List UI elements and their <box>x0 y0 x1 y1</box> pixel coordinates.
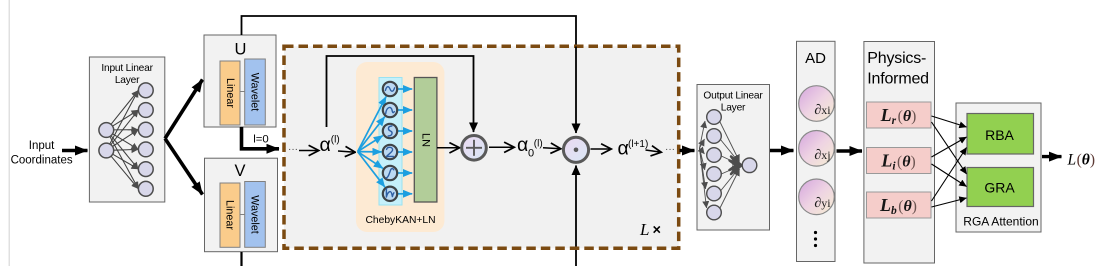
svg-text:Input Linear: Input Linear <box>101 63 153 74</box>
block V Wavelet <box>245 182 266 248</box>
wire LN to plus <box>437 147 460 149</box>
box dashed recurrent block <box>284 46 679 248</box>
wire V internal link <box>240 214 245 216</box>
icon cheb waves <box>385 87 394 197</box>
wire output converge edges <box>720 121 740 209</box>
label alpha0(l) <box>517 134 543 159</box>
svg-text:(l): (l) <box>331 135 340 146</box>
svg-text:Wavelet: Wavelet <box>249 73 261 112</box>
wire alpha l+1 out <box>646 150 662 152</box>
wire alpha0 to dot <box>543 148 561 149</box>
svg-text:Linear: Linear <box>224 78 236 108</box>
label L times <box>639 220 661 239</box>
svg-text:α: α <box>517 134 528 156</box>
svg-text:Coordinates: Coordinates <box>11 154 73 166</box>
svg-text:Physics-: Physics- <box>867 50 926 67</box>
node cheb basis circles <box>383 82 397 201</box>
svg-text:Li(θ): Li(θ) <box>880 151 915 173</box>
wire exit arrow to output layer <box>680 149 695 152</box>
block LN <box>414 78 437 203</box>
box RGA Attention <box>956 103 1041 232</box>
wire Lr to GRA <box>932 122 967 174</box>
svg-text:Lb(θ): Lb(θ) <box>879 195 917 217</box>
svg-text:LN: LN <box>420 133 432 147</box>
svg-text:RBA: RBA <box>985 127 1014 143</box>
svg-text:(l): (l) <box>534 139 543 150</box>
node AD circle dxi <box>799 86 835 122</box>
wire U top to dot-product <box>242 16 577 47</box>
wire fan to V <box>165 139 203 195</box>
svg-text:l=0: l=0 <box>253 133 269 145</box>
label alpha(l) <box>320 134 340 156</box>
wire entry arrow <box>299 150 319 152</box>
box Output Linear Layer <box>697 85 770 231</box>
box ChebyKAN cream <box>356 62 444 232</box>
node input layer circles left <box>99 123 114 158</box>
svg-text:∂xi: ∂xi <box>814 103 831 118</box>
box U <box>204 35 276 127</box>
wire dot top input <box>575 47 577 134</box>
wire skip connection to plus <box>327 56 474 132</box>
wire input net edges <box>110 90 139 189</box>
svg-text:AD: AD <box>805 50 826 67</box>
wire V bottom down <box>240 252 242 266</box>
block Lr loss <box>867 102 932 128</box>
box Physics-Informed <box>864 42 935 264</box>
svg-text:V: V <box>234 162 245 180</box>
op plus circle <box>462 136 487 161</box>
block cyan strip <box>379 78 402 206</box>
block GRA <box>967 168 1034 207</box>
svg-text:L: L <box>639 220 649 239</box>
wire cheb fan in arrows <box>358 97 387 188</box>
svg-text:(l+1): (l+1) <box>628 139 648 150</box>
block Li loss <box>867 148 932 174</box>
svg-text:GRA: GRA <box>984 180 1015 196</box>
block Lb loss <box>867 192 932 218</box>
svg-text:Lr(θ): Lr(θ) <box>880 105 917 127</box>
block U Wavelet <box>245 59 266 125</box>
page edge line <box>8 0 10 266</box>
wire input arrow <box>62 149 88 152</box>
svg-text:Output Linear: Output Linear <box>703 91 763 102</box>
wire output fan in <box>700 121 707 208</box>
wire Li to GRA <box>932 164 967 187</box>
svg-text:U: U <box>235 41 247 59</box>
wire Lr to RBA <box>932 116 967 127</box>
wire Lb to RBA <box>932 148 967 202</box>
node output layer circles <box>707 110 722 220</box>
box Input Linear Layer <box>89 57 164 202</box>
block U Linear <box>220 61 240 125</box>
svg-text:Linear: Linear <box>224 200 236 230</box>
svg-text:Informed: Informed <box>867 71 929 88</box>
svg-text:···: ··· <box>665 144 675 155</box>
node input layer circles right <box>138 83 153 196</box>
svg-text:∂yi: ∂yi <box>814 196 831 211</box>
svg-text:RGA Attention: RGA Attention <box>963 215 1038 229</box>
node AD circle dyi <box>799 179 835 215</box>
node AD circle dxj <box>799 131 835 167</box>
wire U bottom l=0 <box>242 127 280 149</box>
wire U internal link <box>240 91 245 93</box>
node output converge blob <box>730 157 742 175</box>
box V <box>205 158 278 252</box>
wire cheb out arrows <box>398 89 413 194</box>
node output circle <box>742 158 757 173</box>
wire plus to alpha0 <box>489 146 515 148</box>
svg-text:×: × <box>653 223 661 239</box>
wire dot to alpha l+1 <box>591 148 612 150</box>
op dot-product circle <box>563 137 588 162</box>
block V Linear <box>220 183 240 247</box>
wire Lb to GRA <box>932 198 967 207</box>
node Input Coordinates label <box>11 140 73 167</box>
wire dot bottom input <box>575 166 577 247</box>
svg-text:Input: Input <box>29 140 55 152</box>
wire AD to physics <box>837 149 863 152</box>
wire dot bottom below dash <box>575 247 577 266</box>
box AD <box>797 41 836 261</box>
label AD vdots <box>814 231 817 247</box>
wire fan to U <box>165 80 203 139</box>
svg-text:∂xj: ∂xj <box>814 148 830 163</box>
svg-text:Layer: Layer <box>115 75 140 86</box>
svg-text:···: ··· <box>288 144 298 155</box>
svg-text:Wavelet: Wavelet <box>249 195 261 234</box>
wire RGA out <box>1042 155 1062 158</box>
block RBA <box>967 114 1034 155</box>
svg-text:Layer: Layer <box>721 103 746 114</box>
svg-text:ChebyKAN+LN: ChebyKAN+LN <box>365 215 435 226</box>
svg-text:L(θ): L(θ) <box>1067 152 1096 169</box>
wire output to AD <box>770 149 794 152</box>
wire Li to RBA <box>932 137 967 157</box>
label alpha(l+1) <box>618 137 649 159</box>
svg-text:α: α <box>320 134 331 156</box>
wire alpha to fan <box>338 151 356 152</box>
